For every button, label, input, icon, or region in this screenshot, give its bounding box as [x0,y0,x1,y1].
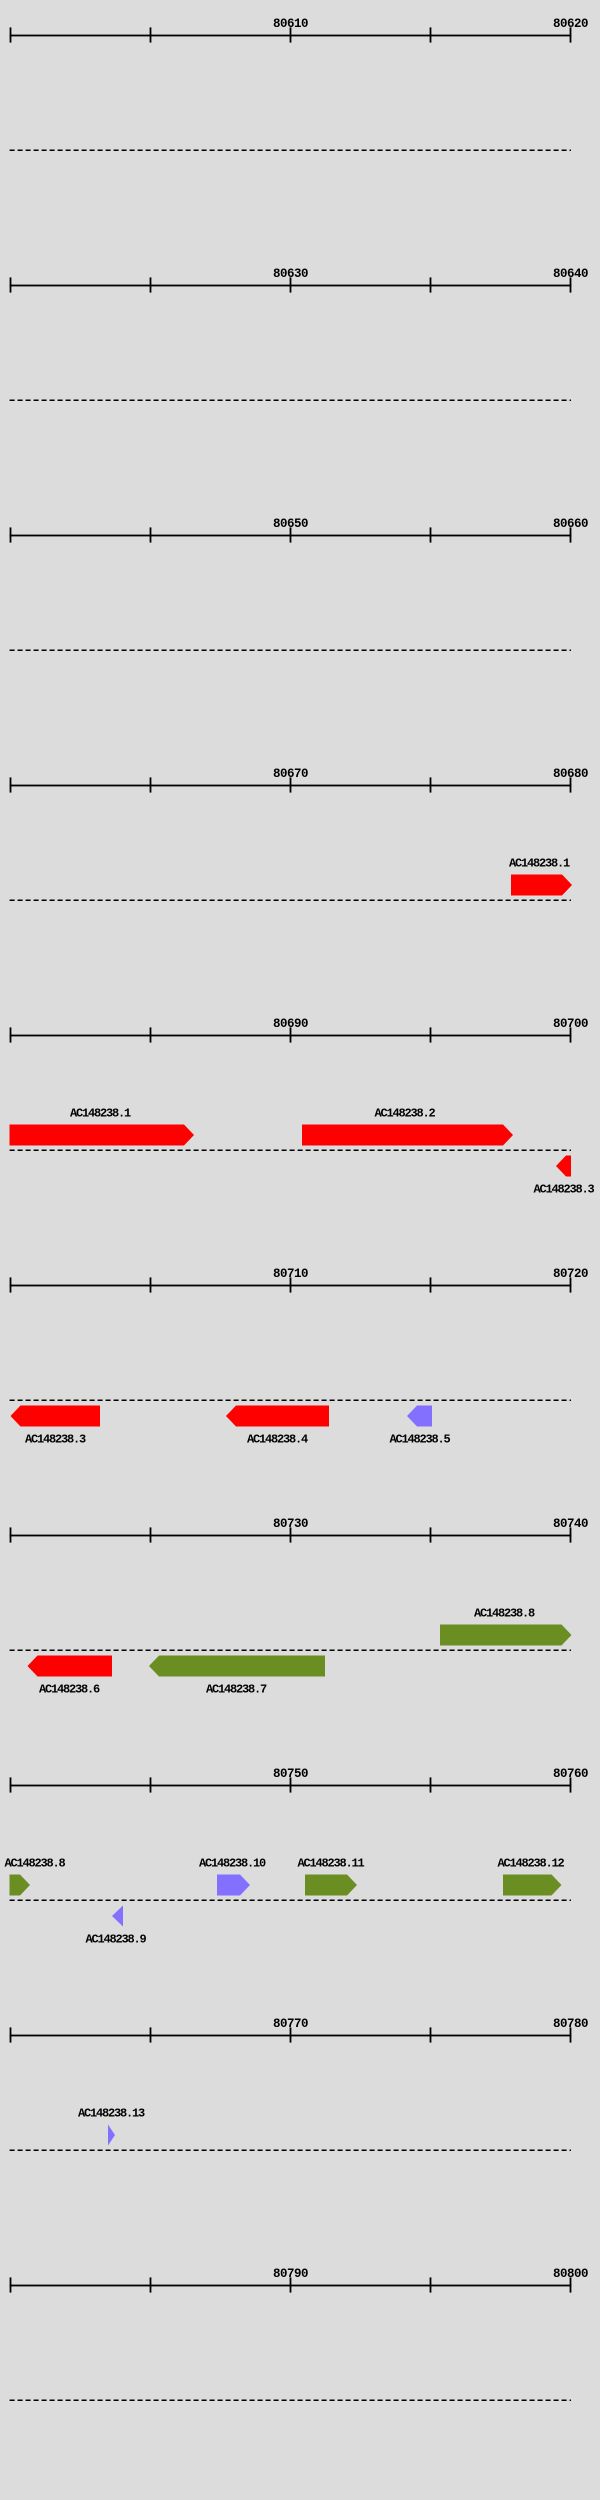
svg-text:AC148238.6: AC148238.6 [39,1683,100,1697]
tick panel 4 pos 3 [290,777,292,792]
svg-text:AC148238.11: AC148238.11 [297,1856,364,1870]
tick panel 2 pos 2 [150,277,152,292]
dashed centerline panel 9 [10,2149,571,2151]
tick panel 1 pos 4 [430,27,432,42]
svg-text:80650: 80650 [273,517,308,531]
svg-text:80660: 80660 [553,517,588,531]
tick panel 3 pos 2 [150,527,152,542]
tick panel 7 pos 5 [570,1527,572,1542]
tick panel 7 pos 4 [430,1527,432,1542]
dashed centerline panel 3 [10,649,571,651]
ruler line panel 7 [10,1535,572,1537]
svg-text:AC148238.4: AC148238.4 [247,1433,308,1447]
dashed centerline panel 1 [10,149,571,151]
dashed centerline panel 5 [10,1149,571,1151]
tick panel 10 pos 2 [150,2277,152,2292]
tick panel 5 pos 5 [570,1027,572,1042]
gene arrow AC148238.6 reverse red [28,1656,113,1677]
svg-text:AC148238.1: AC148238.1 [509,856,570,870]
svg-text:AC148238.9: AC148238.9 [85,1933,146,1947]
tick panel 3 pos 1 [10,527,12,542]
tick panel 7 pos 2 [150,1527,152,1542]
tick panel 3 pos 5 [570,527,572,542]
svg-text:80700: 80700 [553,1017,588,1031]
tick panel 7 pos 3 [290,1527,292,1542]
gene arrow AC148238.7 reverse green [149,1656,325,1677]
dashed centerline panel 7 [10,1649,571,1651]
tick panel 4 pos 2 [150,777,152,792]
tick panel 8 pos 3 [290,1777,292,1792]
tick panel 8 pos 5 [570,1777,572,1792]
svg-text:AC148238.8: AC148238.8 [5,1856,66,1870]
gene arrow AC148238.12 forward green [503,1875,562,1896]
svg-text:80620: 80620 [553,17,588,31]
ruler line panel 3 [10,535,572,537]
tick panel 8 pos 1 [10,1777,12,1792]
svg-text:80790: 80790 [273,2267,308,2281]
gene arrow AC148238.10 forward purple [217,1875,250,1896]
svg-text:AC148238.3: AC148238.3 [533,1183,594,1197]
tick panel 1 pos 2 [150,27,152,42]
dashed centerline panel 2 [10,399,571,401]
tick panel 9 pos 1 [10,2027,12,2042]
tick panel 5 pos 3 [290,1027,292,1042]
tick panel 2 pos 3 [290,277,292,292]
tick panel 10 pos 3 [290,2277,292,2292]
svg-text:80740: 80740 [553,1517,588,1531]
ruler line panel 1 [10,35,572,37]
svg-text:80770: 80770 [273,2017,308,2031]
tick panel 10 pos 4 [430,2277,432,2292]
gene arrow AC148238.1 part1 forward red [511,875,572,896]
gene arrow AC148238.8 part2 forward green [10,1875,31,1896]
gene arrow AC148238.5 reverse purple [407,1406,432,1427]
tick panel 5 pos 4 [430,1027,432,1042]
tick panel 5 pos 1 [10,1027,12,1042]
svg-text:80730: 80730 [273,1517,308,1531]
gene arrow AC148238.13 forward purple triangle [108,2125,115,2146]
gene arrow AC148238.4 reverse red [226,1406,329,1427]
svg-text:AC148238.7: AC148238.7 [206,1683,267,1697]
ruler line panel 5 [10,1035,572,1037]
dashed centerline panel 4 [10,899,571,901]
tick panel 9 pos 3 [290,2027,292,2042]
tick panel 5 pos 2 [150,1027,152,1042]
tick panel 10 pos 1 [10,2277,12,2292]
tick panel 2 pos 5 [570,277,572,292]
tick panel 4 pos 1 [10,777,12,792]
ruler line panel 2 [10,285,572,287]
svg-text:AC148238.5: AC148238.5 [389,1433,450,1447]
gene arrow AC148238.3 part2 reverse red [11,1406,101,1427]
tick panel 3 pos 4 [430,527,432,542]
ruler line panel 10 [10,2285,572,2287]
svg-text:80800: 80800 [553,2267,588,2281]
ruler line panel 9 [10,2035,572,2037]
tick panel 6 pos 4 [430,1277,432,1292]
svg-text:80780: 80780 [553,2017,588,2031]
svg-text:AC148238.8: AC148238.8 [474,1606,535,1620]
svg-text:80760: 80760 [553,1767,588,1781]
svg-text:80640: 80640 [553,267,588,281]
tick panel 8 pos 2 [150,1777,152,1792]
svg-text:80610: 80610 [273,17,308,31]
gene arrow AC148238.2 forward red [302,1125,513,1146]
tick panel 3 pos 3 [290,527,292,542]
ruler line panel 6 [10,1285,572,1287]
tick panel 2 pos 1 [10,277,12,292]
svg-text:AC148238.1: AC148238.1 [70,1106,131,1120]
tick panel 8 pos 4 [430,1777,432,1792]
tick panel 9 pos 5 [570,2027,572,2042]
tick panel 4 pos 4 [430,777,432,792]
svg-text:AC148238.10: AC148238.10 [199,1856,266,1870]
svg-text:80690: 80690 [273,1017,308,1031]
tick panel 9 pos 4 [430,2027,432,2042]
tick panel 1 pos 5 [570,27,572,42]
tick panel 1 pos 3 [290,27,292,42]
tick panel 2 pos 4 [430,277,432,292]
tick panel 10 pos 5 [570,2277,572,2292]
svg-text:AC148238.3: AC148238.3 [25,1433,86,1447]
dashed centerline panel 10 [10,2399,571,2401]
dashed centerline panel 6 [10,1399,571,1401]
svg-text:80720: 80720 [553,1267,588,1281]
tick panel 1 pos 1 [10,27,12,42]
tick panel 9 pos 2 [150,2027,152,2042]
ruler line panel 4 [10,785,572,787]
gene arrow AC148238.3 part1 reverse red [556,1156,571,1177]
tick panel 7 pos 1 [10,1527,12,1542]
svg-text:80750: 80750 [273,1767,308,1781]
svg-text:80710: 80710 [273,1267,308,1281]
svg-text:AC148238.12: AC148238.12 [497,1856,564,1870]
gene arrow AC148238.1 part2 forward red [10,1125,195,1146]
svg-text:80670: 80670 [273,767,308,781]
ruler line panel 8 [10,1785,572,1787]
gene arrow AC148238.9 reverse purple triangle [112,1906,123,1927]
svg-text:80680: 80680 [553,767,588,781]
svg-text:AC148238.2: AC148238.2 [374,1106,435,1120]
gene arrow AC148238.8 part1 forward green [440,1625,572,1646]
tick panel 6 pos 2 [150,1277,152,1292]
tick panel 6 pos 1 [10,1277,12,1292]
gene arrow AC148238.11 forward green [305,1875,357,1896]
tick panel 6 pos 5 [570,1277,572,1292]
svg-text:AC148238.13: AC148238.13 [78,2106,145,2120]
svg-text:80630: 80630 [273,267,308,281]
dashed centerline panel 8 [10,1899,571,1901]
tick panel 4 pos 5 [570,777,572,792]
tick panel 6 pos 3 [290,1277,292,1292]
